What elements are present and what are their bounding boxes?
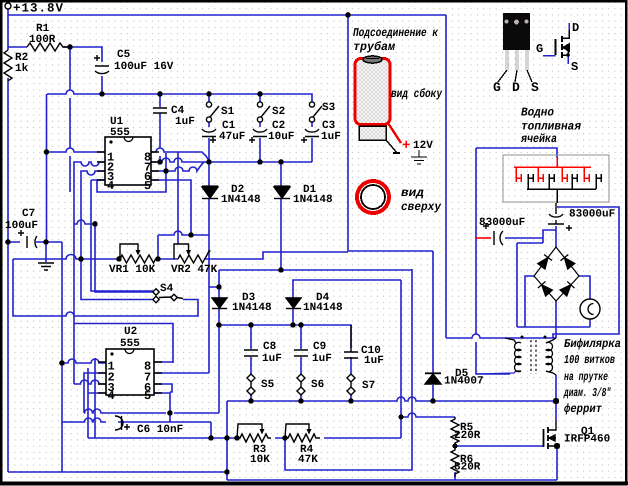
svg-text:10uF: 10uF — [268, 131, 294, 143]
svg-text:S6: S6 — [311, 379, 324, 391]
svg-text:100uF 16V: 100uF 16V — [114, 61, 174, 73]
svg-text:1N4148: 1N4148 — [303, 302, 343, 314]
svg-text:S3: S3 — [322, 102, 336, 114]
svg-text:ячейка: ячейка — [520, 132, 557, 146]
svg-text:феррит: феррит — [564, 402, 603, 416]
svg-text:1N4148: 1N4148 — [232, 302, 272, 314]
svg-text:1uF: 1uF — [364, 355, 384, 367]
svg-text:VR1 10K: VR1 10K — [109, 264, 156, 276]
svg-text:10K: 10K — [250, 454, 270, 466]
svg-text:C6 10nF: C6 10nF — [137, 424, 183, 436]
svg-text:4: 4 — [107, 179, 114, 193]
svg-text:D: D — [572, 21, 579, 35]
svg-text:1uF: 1uF — [262, 353, 282, 365]
svg-text:83000uF: 83000uF — [569, 209, 615, 221]
svg-text:555: 555 — [110, 127, 130, 139]
svg-text:100 витков: 100 витков — [564, 353, 615, 367]
svg-text:1N4148: 1N4148 — [221, 194, 261, 206]
svg-text:47K: 47K — [298, 454, 318, 466]
svg-text:1N4148: 1N4148 — [293, 194, 333, 206]
svg-text:на прутке: на прутке — [564, 370, 608, 384]
svg-text:Водно: Водно — [521, 106, 554, 120]
svg-text:820R: 820R — [454, 462, 481, 474]
svg-text:555: 555 — [120, 338, 140, 350]
svg-text:C8: C8 — [263, 341, 277, 353]
svg-text:Подсоединение к: Подсоединение к — [353, 26, 439, 40]
svg-text:трубам: трубам — [353, 40, 396, 54]
svg-text:5: 5 — [144, 389, 151, 403]
svg-text:1uF: 1uF — [175, 116, 195, 128]
svg-text:S7: S7 — [362, 380, 375, 392]
svg-text:диам. 3/8": диам. 3/8" — [563, 386, 611, 400]
svg-text:сверху: сверху — [401, 200, 442, 214]
svg-text:1N4007: 1N4007 — [444, 376, 484, 388]
svg-text:VR2 47K: VR2 47K — [171, 264, 218, 276]
svg-text:G: G — [536, 42, 543, 56]
svg-text:S: S — [571, 60, 578, 74]
svg-text:S: S — [531, 80, 539, 95]
svg-text:100R: 100R — [29, 34, 56, 46]
svg-text:C5: C5 — [117, 49, 131, 61]
svg-text:47uF: 47uF — [219, 131, 245, 143]
svg-text:C9: C9 — [313, 341, 326, 353]
svg-text:Бифилярка: Бифилярка — [564, 337, 621, 351]
svg-text:вид сбоку: вид сбоку — [391, 87, 443, 101]
svg-text:S4: S4 — [160, 283, 174, 295]
svg-text:S1: S1 — [221, 106, 235, 118]
svg-text:100uF: 100uF — [5, 220, 38, 232]
svg-text:5: 5 — [144, 179, 151, 193]
svg-text:220R: 220R — [454, 430, 481, 442]
svg-text:IRFP460: IRFP460 — [564, 434, 610, 446]
svg-text:83000uF: 83000uF — [479, 217, 525, 229]
svg-text:S2: S2 — [272, 106, 285, 118]
svg-text:D: D — [512, 80, 520, 95]
svg-text:1uF: 1uF — [321, 131, 341, 143]
svg-text:S5: S5 — [261, 379, 275, 391]
svg-text:вид: вид — [401, 186, 424, 200]
svg-text:G: G — [493, 80, 501, 95]
svg-text:1uF: 1uF — [312, 353, 332, 365]
svg-text:+: + — [402, 138, 410, 154]
svg-text:12V: 12V — [413, 140, 433, 152]
svg-text:4: 4 — [108, 389, 115, 403]
svg-text:+13.8V: +13.8V — [13, 2, 64, 16]
svg-text:U2: U2 — [124, 326, 137, 338]
svg-text:1k: 1k — [15, 63, 29, 75]
svg-text:C7: C7 — [22, 208, 35, 220]
